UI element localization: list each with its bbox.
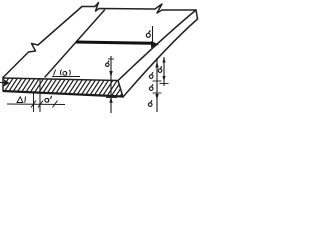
extension line at weld seam right end	[152, 26, 154, 47]
plate front right corner edge C-C2	[118, 81, 123, 98]
plate rear right thickness edge B-B2	[196, 10, 198, 19]
label delta (thickness dimension)	[106, 61, 110, 67]
outer right dimension line	[163, 57, 165, 86]
label delta 1 (right chain)	[149, 72, 153, 78]
label delta 2 (right chain)	[149, 84, 153, 90]
weld seam bead (thick line on top face)	[76, 42, 152, 43]
leader arrow at front left corner	[0, 82, 4, 84]
label a-prime	[45, 96, 52, 103]
tick of outer right dimension	[160, 83, 169, 85]
up arrowhead of outer right dimension	[162, 57, 165, 63]
top tick of thickness dimension	[108, 58, 114, 60]
right dimension chain line	[156, 58, 158, 112]
plate right top edge B-C	[118, 10, 196, 81]
plate front bottom edge D2-C2 (thick)	[3, 91, 123, 97]
plate front left thickness edge D-D2	[2, 77, 4, 91]
extension line V1	[33, 93, 35, 112]
plate left top edge A-D with break zigzag	[4, 7, 82, 77]
label delta at weld seam end	[146, 31, 150, 38]
bottom left dimension line	[7, 103, 65, 106]
label delta-l (bottom left)	[17, 97, 26, 103]
down arrowhead of thickness dimension	[109, 71, 112, 78]
up arrowhead of right dimension chain	[155, 62, 158, 68]
plate bottom right edge B2-C2	[123, 19, 198, 97]
underline of label l(a)	[52, 76, 80, 78]
tick 1 of right dimension chain	[153, 80, 162, 82]
thickness dimension line at weld mid-span	[110, 56, 112, 113]
break line across top face	[45, 10, 105, 77]
up arrowhead of thickness dimension	[109, 97, 112, 103]
arrowhead at weld seam end	[151, 41, 159, 48]
label delta 3 (right chain)	[148, 100, 152, 106]
down arrowhead of right dimension chain	[155, 94, 158, 100]
oblique tick marks on bottom left dimension line	[31, 101, 58, 108]
label l(a) on top face	[54, 70, 71, 76]
label delta (outer right dimension)	[158, 66, 162, 72]
tick 2 of right dimension chain	[153, 92, 162, 94]
plate front top edge D-C	[3, 78, 118, 81]
down arrowhead of outer right dimension	[162, 76, 165, 82]
extension line V2 through front face	[39, 78, 41, 112]
bottom tick of thickness dimension	[106, 97, 117, 99]
plate back top edge A-B with two break zigzags	[82, 3, 196, 14]
